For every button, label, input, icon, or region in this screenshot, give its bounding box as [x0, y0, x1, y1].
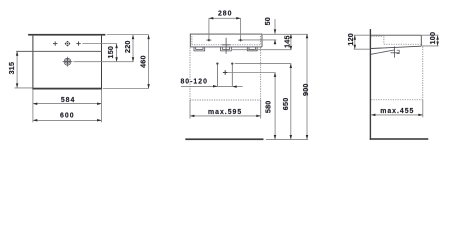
wall: [370, 29, 371, 140]
basin right edge: [101, 36, 102, 90]
supply pipe right: [231, 62, 233, 64]
top extension line (220/460): [107, 34, 149, 36]
120 top extension: [354, 34, 370, 36]
dim 315: [16, 52, 18, 88]
svg-text:220: 220: [123, 40, 132, 53]
svg-text:145: 145: [282, 35, 291, 48]
drain symbol: [63, 57, 73, 67]
dashed inner bowl: [192, 36, 261, 45]
foot bracket right: [247, 47, 257, 51]
tap hole cross left: [53, 41, 57, 45]
dim 145: [290, 35, 292, 50]
svg-text:584: 584: [61, 97, 76, 104]
trap box: [397, 50, 400, 53]
dim 220: [132, 35, 134, 61]
120 bottom extension: [354, 48, 370, 50]
dim 80-120: [181, 86, 243, 88]
dim 120: [354, 36, 356, 49]
basin left edge: [32, 36, 33, 90]
dim 460: [148, 35, 150, 88]
100 bottom extension: [422, 45, 439, 47]
bottom extension line (460): [103, 88, 149, 90]
basin deck line + 315 top extension: [16, 50, 101, 52]
max.455 dashed top line: [371, 99, 423, 101]
deck extension (50): [243, 39, 276, 41]
tap hole cross right: [76, 41, 80, 45]
tap hole extension left with arrow: [208, 18, 210, 41]
dim 584: [33, 103, 101, 105]
dashed bowl profile: [371, 36, 421, 44]
svg-text:600: 600: [60, 112, 75, 119]
max.595 dashed top line: [190, 99, 261, 101]
supply pipe left: [216, 62, 218, 64]
svg-text:100: 100: [428, 32, 437, 45]
trap vertical: [394, 46, 396, 57]
leader waste cross to 580: [228, 72, 276, 74]
svg-text:max.595: max.595: [208, 109, 242, 116]
trap crossbar: [390, 52, 399, 54]
floor: [370, 138, 429, 140]
basin front (bottom) edge: [32, 88, 102, 90]
dim 100: [437, 36, 439, 46]
dim 650: [290, 64, 292, 139]
leader from tap line to 150 dim: [82, 43, 117, 45]
faucet hole symbol: [65, 41, 71, 47]
dim max.595: [190, 115, 260, 117]
svg-text:80-120: 80-120: [180, 78, 207, 85]
dim max.455: [371, 114, 422, 116]
waste outlet cross: [223, 70, 228, 75]
dim 580: [274, 73, 276, 139]
leader supply dots to 650: [235, 63, 292, 65]
svg-text:120: 120: [346, 33, 355, 46]
145 bottom extension: [232, 49, 292, 51]
washbasin rear edge (thick bar): [28, 34, 105, 36]
max.455 dashed boundary right: [422, 46, 424, 99]
max.595 dashed boundary right: [260, 48, 262, 101]
drain axis shaft: [225, 38, 227, 54]
foot bracket middle: [221, 47, 232, 51]
svg-text:650: 650: [281, 98, 290, 111]
svg-text:280: 280: [218, 11, 233, 18]
svg-text:150: 150: [106, 46, 115, 59]
dim 900: [306, 35, 308, 139]
floor extension line: [266, 138, 308, 140]
foot bracket left: [194, 47, 205, 51]
waste pipe diagonal: [371, 50, 395, 54]
max.595 dashed boundary left: [189, 48, 191, 101]
top extension to 900: [263, 33, 308, 35]
floor line (thick): [185, 138, 263, 140]
584/600 extension verticals: [32, 90, 34, 123]
100 top extension: [422, 34, 439, 36]
dim 280: [209, 17, 241, 19]
svg-text:50: 50: [263, 17, 272, 25]
leader from drain to 220 dim: [74, 61, 134, 63]
basin slab outline: [190, 34, 263, 47]
svg-text:900: 900: [301, 83, 310, 96]
tap hole extension right with arrow: [240, 18, 242, 41]
svg-text:max.455: max.455: [380, 108, 414, 115]
dim 50 (outside arrows): [274, 19, 276, 34]
dim 150: [116, 44, 118, 61]
dim 315 bottom extension: [15, 87, 33, 89]
basin profile: [371, 35, 421, 48]
svg-text:460: 460: [139, 55, 148, 68]
svg-text:580: 580: [264, 101, 273, 114]
dim 600: [33, 119, 101, 121]
svg-text:315: 315: [7, 62, 16, 75]
